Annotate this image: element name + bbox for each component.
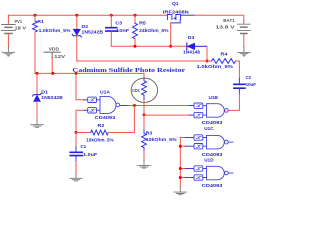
svg-text:1.0kOhm_5%: 1.0kOhm_5%: [39, 28, 72, 34]
junction (top rail / R5): [134, 14, 137, 17]
junction (gate / C3R5 / D3 node): [169, 45, 172, 48]
wire U1C in2: [180, 145, 185, 147]
junction (VDD rail / U1A in1 feed): [75, 72, 78, 75]
ground (below R3): [138, 160, 151, 168]
svg-text:PV1: PV1: [15, 19, 23, 24]
capacitor C2: [234, 75, 256, 88]
wire top rail left (PV1 to Q1 drain): [8, 14, 167, 16]
wire U1A output to U1B in1: [127, 105, 190, 107]
wire D2 bottom rail: [77, 60, 207, 62]
resistor R2: [76, 123, 134, 144]
zener diode D2: [72, 15, 103, 61]
svg-text:BAT1: BAT1: [223, 18, 235, 23]
svg-text:13.8 V: 13.8 V: [216, 25, 235, 30]
resistor R1: [33, 15, 72, 73]
svg-text:1N5242B: 1N5242B: [41, 95, 63, 101]
svg-text:10nF: 10nF: [116, 28, 129, 34]
svg-text:U1B: U1B: [209, 95, 219, 101]
wire R4 to C2: [238, 61, 240, 79]
svg-text:R2: R2: [98, 123, 105, 129]
junction (top rail / C3): [110, 14, 113, 17]
solar cell PV1: [2, 15, 27, 47]
junction (D2 bottom wire / D3 / R4): [206, 60, 209, 63]
MOSFET Q1: [163, 1, 194, 23]
svg-text:C1: C1: [80, 144, 86, 150]
wire U1D in2: [180, 177, 185, 179]
wire U1B in2 from CD1/R3 node: [144, 114, 190, 116]
svg-text:C2: C2: [246, 75, 252, 81]
NAND gate U1C (CD4093): [194, 126, 233, 158]
svg-text:R5: R5: [139, 20, 146, 26]
svg-text:CD4093: CD4093: [95, 115, 116, 121]
svg-text:CD1: CD1: [132, 88, 140, 93]
battery BAT1: [216, 18, 251, 48]
svg-text:1N5242B: 1N5242B: [82, 30, 104, 36]
svg-text:10kOhm_5%: 10kOhm_5%: [86, 138, 114, 144]
wire Q1 gate lead: [170, 23, 172, 46]
svg-text:Q1: Q1: [172, 1, 179, 7]
junction (VDD rail / VDD stem): [51, 72, 54, 75]
svg-text:R3: R3: [146, 131, 153, 137]
svg-text:R4: R4: [221, 52, 228, 58]
wire VDD rail: [35, 72, 144, 74]
svg-text:U1D: U1D: [204, 158, 214, 164]
svg-text:Cadmium Sulfide Photo Resistor: Cadmium Sulfide Photo Resistor: [72, 67, 185, 74]
junction (R5 bottom): [134, 45, 137, 48]
svg-text:1.0kOhm_5%: 1.0kOhm_5%: [197, 64, 234, 70]
svg-text:12V: 12V: [54, 54, 65, 59]
wire top rail right (Q1 source to BAT1): [194, 15, 244, 21]
diode D3: [171, 35, 207, 56]
junction (VDD rail / D1): [36, 72, 39, 75]
ground (bus bottom): [174, 187, 187, 194]
svg-text:U1A: U1A: [100, 89, 111, 95]
junction (in2 / R2 / C1): [75, 131, 78, 134]
NAND gate U1B (CD4093): [194, 95, 228, 126]
power symbol VDD: [44, 47, 65, 74]
NAND gate U1D (CD4093): [194, 158, 233, 189]
ground (below D1): [31, 121, 44, 128]
svg-text:CD4093: CD4093: [202, 152, 223, 158]
capacitor C1: [70, 133, 97, 176]
svg-text:D2: D2: [82, 24, 89, 30]
junction (bus / U1D in1): [179, 167, 182, 170]
svg-text:D1: D1: [41, 90, 48, 96]
svg-text:18 V: 18 V: [15, 26, 27, 31]
svg-text:D3: D3: [188, 35, 195, 41]
resistor R3: [142, 115, 178, 160]
resistor R4: [197, 52, 240, 71]
wire D3 to R4 node: [206, 46, 208, 61]
NAND gate U1A (CD4093): [88, 89, 120, 121]
wire CD1 bottom: [143, 101, 145, 115]
wire R2 feedback vertical: [133, 106, 135, 133]
svg-text:24kOhm_5%: 24kOhm_5%: [139, 28, 169, 34]
junction (top rail / D2): [75, 14, 78, 17]
svg-text:IRF2408N: IRF2408N: [163, 9, 190, 15]
svg-text:10kOhm_5%: 10kOhm_5%: [146, 137, 178, 143]
junction (top rail / R1): [34, 14, 37, 17]
svg-text:1N4148: 1N4148: [183, 49, 200, 55]
photoresistor CD1: [131, 73, 157, 102]
wire ground bus (U1C/U1D inputs): [179, 138, 181, 188]
svg-text:C3: C3: [115, 20, 122, 26]
svg-text:CD4093: CD4093: [202, 120, 223, 126]
zener diode D1: [33, 73, 64, 121]
wire U1D in1: [180, 168, 185, 170]
junction (bus / U1D in2): [179, 176, 182, 179]
wire C3/R5 bottom to Q1 gate node: [111, 45, 170, 47]
svg-text:CD4093: CD4093: [202, 183, 223, 189]
svg-text:U1C: U1C: [204, 126, 214, 132]
junction (U1A out / R2 feedback): [133, 104, 136, 107]
ground (below PV1): [2, 47, 15, 56]
resistor R5: [133, 15, 170, 46]
wire C2 to U1B output: [238, 89, 240, 94]
svg-text:10uF: 10uF: [246, 82, 256, 88]
ground (below C1): [70, 175, 83, 181]
svg-text:R1: R1: [37, 19, 44, 25]
junction (bus / U1C in2): [179, 145, 182, 148]
wire U1A in2 to C1/R2 node: [84, 109, 88, 111]
svg-text:VDD: VDD: [49, 47, 60, 52]
capacitor C3: [106, 15, 129, 46]
wire U1A in1 feed from VDD rail: [76, 73, 84, 99]
svg-text:1.0uF: 1.0uF: [83, 152, 97, 158]
wire U1C in1: [180, 137, 185, 139]
ground (below BAT1): [238, 47, 251, 56]
junction (CD1 / R3 / U1B in2): [143, 113, 146, 116]
